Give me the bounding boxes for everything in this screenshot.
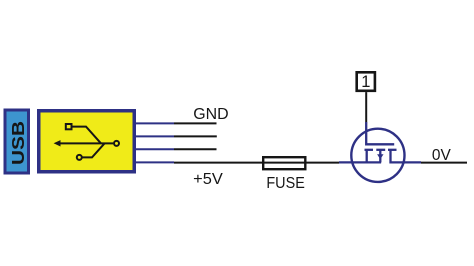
- wire 0V black segment: [421, 162, 467, 164]
- connector J1 USB body: [39, 111, 135, 172]
- transistor Q1 source bar blue lead: [339, 161, 381, 163]
- svg-text:0V: 0V: [432, 147, 451, 164]
- fuse F1 body: [263, 157, 305, 169]
- wire pin4 +5V blue segment: [134, 161, 174, 163]
- svg-text:FUSE: FUSE: [266, 175, 304, 192]
- transistor Q1 channel dash body: [376, 149, 385, 151]
- transistor Q1 source tap: [366, 150, 368, 163]
- USB trident icon bottom circle terminal: [77, 155, 82, 160]
- transistor Q1 drain tap and lead: [391, 150, 422, 163]
- wire +5V black segment to fuse and through fuse: [174, 162, 339, 164]
- wire pin1 GND black segment: [174, 122, 217, 124]
- transistor Q1 channel dash source: [365, 149, 374, 151]
- transistor Q1 body circle: [351, 129, 404, 182]
- USB trident icon square terminal: [66, 124, 72, 129]
- wire pin2 data black segment: [174, 135, 217, 137]
- wire pin2 data blue segment: [134, 135, 174, 137]
- svg-text:USB: USB: [8, 121, 28, 165]
- svg-text:1: 1: [361, 73, 370, 91]
- pin label box 1: [357, 72, 375, 91]
- USB trident icon arrowhead: [54, 140, 61, 146]
- USB trident icon bottom branch: [83, 143, 105, 157]
- transistor Q1 channel dash drain: [388, 149, 397, 151]
- connector J1 USB port label plate: [5, 110, 29, 173]
- USB trident icon main stem: [57, 142, 113, 144]
- wire pin3 data blue segment: [134, 148, 174, 150]
- transistor Q1 body tap with arrow: [379, 150, 381, 163]
- wire pin1 GND blue segment: [134, 122, 174, 124]
- wire pin3 data black segment: [174, 148, 217, 150]
- USB trident icon right circle terminal: [114, 141, 119, 146]
- svg-text:GND: GND: [193, 106, 228, 123]
- wire gate lead black segment: [365, 92, 367, 122]
- USB trident icon top branch: [73, 127, 102, 144]
- svg-text:+5V: +5V: [193, 171, 223, 188]
- transistor Q1 body arrowhead: [377, 154, 383, 159]
- transistor Q1 gate lead and gate bar: [366, 122, 394, 144]
